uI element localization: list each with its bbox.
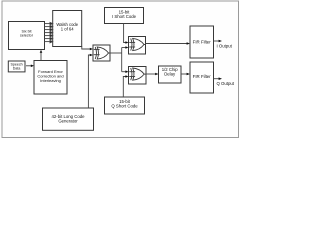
svg-text:Delay: Delay bbox=[164, 71, 176, 76]
wire: Q FIR filter output arrow bbox=[214, 77, 223, 80]
block: 42-bit Long Code Generator bbox=[43, 108, 94, 130]
wire: branch to xor U2 input 2 bbox=[122, 46, 129, 49]
wire: speech data to FEC bbox=[26, 65, 34, 68]
wire: I FIR filter output arrow bbox=[214, 40, 223, 43]
xor gate U3 (Q short code xor) bbox=[129, 67, 147, 85]
svg-text:1 of 64: 1 of 64 bbox=[61, 26, 74, 31]
block: Six bit selector bbox=[9, 22, 45, 50]
svg-text:Interleaving: Interleaving bbox=[40, 78, 61, 83]
svg-text:Q Short Code: Q Short Code bbox=[111, 104, 138, 109]
wire: xor U1 output and branch vertical bbox=[110, 48, 122, 72]
wire: long code generator up to xor U1 input 2 bbox=[88, 54, 93, 108]
svg-text:Generator: Generator bbox=[58, 118, 78, 123]
wire: Q short code up to xor U3 input 2 bbox=[123, 75, 128, 97]
bus: six wires selector to walsh bbox=[45, 22, 53, 42]
xor gate U1 (I-path data xor long code) bbox=[93, 45, 110, 61]
wire: I short code down to xor U2 input 1 bbox=[124, 24, 129, 44]
block: 15-bit Q Short Code bbox=[105, 97, 145, 114]
svg-text:selector: selector bbox=[20, 34, 34, 38]
block: 15-bit I Short Code bbox=[105, 8, 144, 24]
xor gate U2 (I short code xor) bbox=[129, 37, 146, 55]
block: FIR Filter (I path) bbox=[190, 26, 214, 58]
wire: xor U2 output to I FIR filter bbox=[146, 42, 191, 45]
wire: FEC up to six bit selector bbox=[40, 50, 43, 61]
block: FIR Filter (Q path) bbox=[190, 62, 214, 93]
wire: branch to xor U3 input 1 bbox=[122, 70, 129, 73]
label: Q Output bbox=[217, 81, 235, 86]
svg-text:Data: Data bbox=[13, 66, 21, 70]
block: Forward Error Correction and Interleaving bbox=[34, 61, 67, 95]
outer frame bbox=[2, 1, 239, 138]
svg-text:I Output: I Output bbox=[217, 43, 233, 48]
wire: walsh code out to xor U1 input 1 bbox=[82, 46, 93, 50]
svg-text:FIR Filter: FIR Filter bbox=[193, 39, 212, 44]
wire: half chip delay to Q FIR filter bbox=[181, 73, 190, 76]
block: Speech Data bbox=[8, 61, 25, 72]
wire: xor U3 output to half chip delay bbox=[146, 73, 159, 76]
svg-text:Q Output: Q Output bbox=[217, 81, 235, 86]
block: Walsh code 1 of 64 bbox=[53, 11, 82, 47]
svg-text:FIR Filter: FIR Filter bbox=[193, 74, 212, 79]
label: I Output bbox=[217, 43, 233, 48]
svg-text:I Short Code: I Short Code bbox=[112, 14, 137, 19]
block: 1/2 Chip Delay bbox=[159, 66, 182, 83]
